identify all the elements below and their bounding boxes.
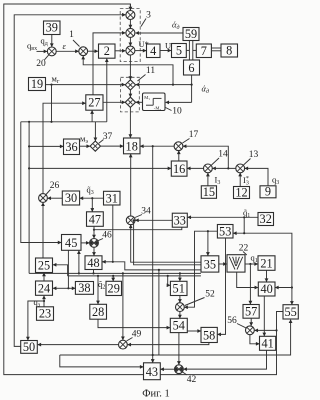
svg-text:9: 9: [265, 185, 271, 199]
svg-text:20: 20: [36, 59, 46, 69]
wire block 25 up into circle 26 bottom: [42, 203, 44, 258]
label 11 with leader: [138, 66, 156, 81]
svg-text:30: 30: [65, 191, 77, 205]
wire alpha-dot branch up and left into circle 1 bottom: [83, 56, 173, 84]
wire 47 down into 46 top: [93, 226, 95, 238]
svg-text:25: 25: [38, 259, 50, 273]
svg-text:27: 27: [88, 96, 100, 110]
svg-text:48: 48: [87, 256, 99, 270]
block 50: [21, 340, 38, 354]
block 36 (m_e source): [64, 139, 80, 155]
multiplier circle 42 with filled side sectors: [175, 365, 184, 374]
wire band branch down into block 51 top: [179, 273, 181, 280]
svg-text:40: 40: [260, 282, 272, 296]
svg-text:59: 59: [185, 27, 197, 41]
label 3 with leader: [141, 10, 151, 26]
block 54: [170, 318, 187, 332]
block 57: [243, 305, 259, 319]
wire valve 22 bottom down then right into 40 left: [237, 272, 258, 287]
svg-text:37: 37: [103, 132, 113, 142]
block 4: [147, 44, 161, 58]
wire from circle 17 branch down into block 43 top: [152, 146, 154, 362]
wire block 2 to summing circle of unit 3: [115, 50, 125, 52]
svg-text:14: 14: [218, 149, 228, 159]
svg-text:ε: ε: [63, 41, 67, 51]
multiplier circle 46 with filled side sectors: [90, 239, 99, 248]
block 29: [106, 281, 122, 295]
wire circle 17 output line into block 18 right, with branch junction: [140, 145, 174, 147]
block 39 (setpoint q_d source): [44, 21, 61, 35]
svg-text:32: 32: [260, 212, 272, 226]
wire epsilon from circle 20 to circle 1: [56, 41, 78, 52]
block 12: [234, 185, 250, 199]
svg-text:10: 10: [172, 107, 182, 117]
wire q1 branch down into block 57 top: [249, 264, 251, 304]
wire long branch into block 16 left: [29, 167, 171, 169]
wire 53 bottom down then left into block 58 right: [218, 238, 226, 334]
multiplier diamond 37: [90, 141, 100, 151]
svg-text:4: 4: [150, 44, 156, 58]
wire 45 output right into multiplier 46: [81, 242, 89, 244]
block 8: [221, 44, 238, 58]
svg-text:52: 52: [205, 289, 215, 299]
wire band branch down into block 29 top: [112, 276, 114, 281]
svg-text:26: 26: [50, 181, 60, 191]
block 16: [171, 161, 187, 176]
block 19 (m_g source): [29, 77, 46, 91]
svg-text:57: 57: [245, 305, 257, 319]
svg-text:qвх: qвх: [27, 41, 37, 53]
wire q_vx input arrow into summing circle 20: [37, 50, 47, 52]
summing circle 34: [126, 216, 135, 225]
svg-text:21: 21: [260, 256, 272, 270]
svg-text:q3: q3: [272, 175, 279, 187]
multiplier circle 56: [246, 326, 255, 335]
wire 35 output left then up into circle 34 bottom: [131, 225, 201, 262]
block 41: [260, 336, 276, 350]
wire circle 3c bottom down to multiplier d1 top: [129, 55, 131, 79]
shaft double lines 59 to 6 through 5-7 gap: [186, 41, 196, 61]
block 33: [172, 213, 187, 227]
svg-text:άд: άд: [172, 19, 180, 31]
wire circle 3b to 3c: [129, 37, 131, 45]
wire 54 bottom down into circle 42 top: [178, 333, 180, 365]
wire 45 output down to junction feeding 24 and 38: [53, 250, 75, 289]
block 5: [172, 44, 187, 58]
wire 21 down into 40 top: [266, 270, 268, 281]
block 28: [90, 304, 107, 319]
block 25: [36, 258, 53, 273]
wire U from block 4 to block 5: [160, 40, 171, 50]
svg-text:34: 34: [141, 206, 151, 216]
svg-text:11: 11: [146, 66, 155, 76]
svg-text:42: 42: [187, 375, 197, 385]
svg-text:19: 19: [31, 77, 43, 91]
wire alpha-dot feedback from block 59 into circle 3b: [136, 19, 183, 33]
wire 57 down into multiplier 56: [250, 318, 252, 325]
wire 40 down into 41 top: [263, 296, 265, 336]
wire u-turn into block 43 left: [60, 355, 143, 367]
summing circle 3a (top of unit 3): [126, 11, 135, 20]
wire left bus x=20.8 down to block 45 left input: [21, 122, 61, 243]
svg-text:47: 47: [89, 212, 101, 226]
svg-text:16: 16: [173, 162, 185, 176]
block 9: [260, 185, 276, 199]
label 17 with leader: [183, 130, 199, 143]
wire 39 to summing circle 20, q_d label: [41, 35, 52, 48]
label 56 with leader: [227, 316, 246, 328]
svg-text:55: 55: [284, 305, 296, 319]
block 6 (acceleration sensor): [184, 60, 200, 75]
wire circle 26 output up then right into block 27 left: [43, 103, 85, 193]
svg-text:мэ: мэ: [80, 134, 88, 146]
saturation block 10: [143, 93, 166, 111]
label 13 with leader: [244, 150, 259, 165]
svg-text:58: 58: [203, 329, 215, 343]
label 1 with leader: [69, 30, 79, 46]
svg-text:24: 24: [38, 281, 50, 295]
wire band branch up into block 25 right: [53, 265, 67, 276]
label 42 with leader: [182, 372, 197, 385]
summing circle 3b (middle of unit 3): [126, 28, 135, 37]
block 18: [124, 138, 141, 154]
label 52 with leader: [185, 289, 215, 305]
wire branch of 33 output down and right into 35 left: [133, 219, 201, 265]
block 38: [75, 281, 93, 295]
wire up into block 27 bottom: [91, 111, 93, 122]
wire band branch down into block 28 top: [97, 276, 99, 304]
wire 46 down into 48 top: [93, 247, 95, 255]
svg-text:23: 23: [39, 307, 51, 321]
wire 53 output left with drop to block 52: [185, 230, 218, 307]
svg-text:Мт: Мт: [144, 95, 150, 101]
wire alpha-dot into saturation block 10 right: [166, 101, 192, 103]
svg-text:άд: άд: [202, 84, 210, 96]
svg-text:31: 31: [106, 191, 118, 205]
block 21: [258, 256, 275, 271]
svg-text:-Мт: -Мт: [154, 106, 162, 112]
wire band down into circle 49 top: [122, 273, 124, 339]
svg-text:36: 36: [65, 140, 77, 154]
block 35: [201, 256, 219, 272]
svg-text:мг: мг: [52, 73, 60, 85]
svg-text:18: 18: [126, 139, 138, 153]
block 48: [85, 256, 102, 270]
wire 41 bottom down then left into circle 42 right: [184, 350, 267, 369]
wire 36 to diamond 37: [80, 145, 90, 147]
svg-text:17: 17: [189, 130, 199, 140]
wire q3-tilde from block 31 into block 30 with branch to 47: [80, 184, 104, 199]
wire 28 bottom to block 54 left: [98, 319, 170, 327]
block 53: [217, 224, 233, 238]
dashed unit 11 box: [121, 77, 140, 112]
svg-text:qд: qд: [41, 36, 48, 48]
wire I*3 from block 12 up into circle 13: [240, 173, 249, 186]
svg-text:I3: I3: [215, 175, 221, 187]
wire branch up into block 2 bottom: [106, 59, 108, 122]
wire branch down into block 35 top: [207, 231, 209, 255]
wire saturation block 10 output into d2 right: [136, 101, 143, 103]
svg-text:41: 41: [261, 337, 273, 351]
wire I3 from block 15 up into circle 14: [208, 173, 220, 186]
block 58: [201, 327, 217, 342]
block 51: [170, 281, 187, 295]
svg-text:33: 33: [174, 213, 186, 227]
summing circle 1: [79, 47, 88, 56]
wire block 16 output up into circle 17 bottom: [178, 151, 180, 161]
block 59 (tachogenerator): [183, 27, 199, 41]
wire block 27 output right into d2 left: [103, 101, 125, 103]
wire q_z branch left and down into block 50 top: [28, 301, 44, 340]
svg-text:q̃2: q̃2: [98, 279, 105, 291]
wire 58 bottom down then left into circle 49: [128, 343, 209, 345]
svg-text:5: 5: [176, 44, 182, 58]
wire d1 to d2: [129, 90, 131, 97]
shaft double lines 7 to 8: [211, 48, 221, 51]
wire block 30 output into circle 26: [48, 197, 63, 199]
wire 56 output down then right into 41 left: [250, 335, 259, 344]
label 49 with leader: [127, 329, 142, 341]
wire 51 down into circle 52: [179, 296, 181, 303]
svg-text:39: 39: [46, 21, 58, 35]
wire left bus x=29.1 down with branches: [28, 122, 30, 274]
svg-text:54: 54: [173, 319, 185, 333]
svg-text:12: 12: [235, 185, 247, 199]
svg-text:49: 49: [132, 329, 142, 339]
wire m_g vertical drop from junction: [51, 85, 53, 122]
block 45: [62, 235, 82, 251]
block 32: [258, 212, 274, 226]
wire circle 34 output up into block 18 bottom: [130, 154, 132, 216]
wire q1 from valve 22 to block 21 with branch: [245, 252, 258, 265]
label 20 with leader: [36, 55, 49, 69]
summing circle 3c (bottom of unit 3): [126, 46, 135, 55]
svg-text:q̃1: q̃1: [243, 207, 250, 219]
summing circle 26: [39, 194, 48, 203]
summing circle 13: [236, 164, 245, 173]
svg-text:56: 56: [227, 316, 237, 326]
wire d2 output down into block 18 top: [129, 107, 131, 137]
wire 48 bottom stub to band: [92, 270, 94, 275]
wire diamond 37 to block 18 left: [101, 145, 124, 147]
svg-text:2: 2: [104, 44, 110, 58]
svg-text:46: 46: [102, 230, 112, 240]
label 37 with leader: [99, 132, 113, 143]
wire q_z from 23 up into 24: [34, 296, 46, 308]
svg-text:q̃3: q̃3: [87, 184, 94, 196]
svg-text:35: 35: [204, 258, 216, 272]
wire 52 down into 54 top: [179, 312, 181, 319]
summing circle 20: [47, 47, 56, 56]
wire U* output of unit 3 to block 4: [135, 39, 149, 51]
label 22 with leader: [239, 243, 249, 255]
wire horizontal bus y=121.8: [21, 121, 107, 123]
label 10 with leader: [166, 107, 183, 117]
wire q1-tilde to right-side bus down to 40 and 55: [243, 232, 293, 304]
wire branch from outer loop into multiplier 56: [255, 329, 277, 331]
wire band line y=275.9: [68, 275, 201, 277]
summing circle 52: [176, 303, 185, 312]
svg-text:51: 51: [173, 282, 185, 296]
svg-text:q1: q1: [251, 252, 258, 264]
wire alpha-dot from block 6 bottom to multiplier d1 right: [136, 75, 209, 102]
multiplier diamond d1 of unit 11: [125, 80, 135, 90]
block 2: [99, 44, 116, 58]
svg-text:1: 1: [69, 30, 74, 40]
wire circle 1 to block 2: [88, 50, 98, 52]
svg-text:45: 45: [65, 236, 77, 250]
block 55: [283, 305, 298, 319]
block 47: [87, 212, 104, 227]
svg-text:29: 29: [108, 282, 120, 296]
label 26 with leader: [46, 181, 60, 195]
wire 42 output into 43 right: [161, 368, 175, 370]
dashed unit 3 box: [120, 9, 140, 62]
svg-text:6: 6: [188, 61, 194, 75]
block 27: [86, 95, 103, 110]
wire circle 13 output into circle 14 right: [213, 167, 236, 169]
wire q3 from block 9 into circle 13 right: [245, 168, 279, 186]
svg-text:Фиг. 1: Фиг. 1: [142, 389, 170, 400]
svg-text:43: 43: [146, 365, 158, 379]
block 30: [62, 191, 79, 205]
svg-text:38: 38: [78, 281, 90, 295]
label 34 with leader: [135, 206, 151, 217]
summing circle 49: [119, 340, 128, 349]
wire from 47-46 column right to block 33 bottom: [93, 227, 182, 230]
wire 45 bottom input from band: [78, 251, 80, 275]
wire branch into block 36 left: [29, 145, 63, 147]
block 40: [258, 282, 275, 296]
summing circle 17: [174, 142, 183, 151]
wire band branch down into block 51 left: [168, 276, 170, 285]
wire long line to block 55 bottom: [60, 320, 291, 355]
valve block 22: [227, 255, 245, 272]
wire branch down into block 47 top: [91, 198, 93, 211]
wire q1-tilde drop into block 53 right: [233, 217, 244, 233]
label 14 with leader: [212, 149, 229, 165]
summing circle 14: [204, 164, 213, 173]
svg-text:50: 50: [23, 340, 35, 354]
wire from block 27 top up into circle 3b left: [93, 33, 125, 95]
svg-text:53: 53: [219, 224, 231, 238]
wire 35 to valve 22: [219, 263, 227, 265]
wire 54 output right into 58 left: [187, 330, 200, 332]
block 23: [37, 307, 54, 321]
multiplier diamond d2 of unit 11: [125, 97, 135, 107]
block 15: [201, 185, 216, 199]
block 7: [196, 44, 211, 58]
wire vertical from 35-feed line down to long line: [158, 269, 160, 355]
svg-text:28: 28: [92, 305, 104, 319]
label 46 with leader: [98, 230, 112, 240]
block 31: [104, 191, 121, 205]
block 24: [36, 281, 53, 295]
wire second feedback loop from block 50 up left side to summing circle of unit 3: [14, 15, 125, 347]
svg-text:15: 15: [203, 185, 215, 199]
wire circle 3a to 3b: [129, 20, 131, 29]
wire m_g from 19 to multiplier d1, label m_g: [46, 73, 125, 85]
wire 24 up into 25: [43, 273, 45, 281]
wire down into diamond 37 top: [94, 122, 96, 141]
svg-text:8: 8: [226, 44, 232, 58]
svg-text:3: 3: [146, 10, 151, 20]
wire band line y=273.4: [29, 272, 201, 274]
svg-text:U: U: [165, 40, 171, 50]
wire from block 31 bottom down into 48 right and on to 35: [103, 205, 201, 270]
block 43: [144, 363, 161, 380]
wire branch into block 40 right: [275, 287, 292, 289]
wire into circle 17 right from junction above 13-14 line: [183, 146, 229, 169]
wire block 33 output to circle 34 with drop branch to 35: [136, 219, 173, 221]
svg-text:7: 7: [201, 44, 207, 58]
wire circle 14 output into block 16 right: [187, 167, 203, 169]
wire q1-tilde net from block 32 to 33, 53 and right-side bus: [188, 207, 258, 219]
wire 49 output left into block 50 right: [38, 344, 119, 346]
